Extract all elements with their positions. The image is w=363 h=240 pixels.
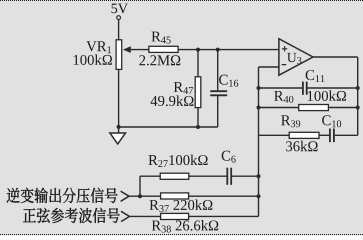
value 100k ohm (VR1) xyxy=(74,54,112,65)
label VR1 xyxy=(86,41,111,53)
value 100k ohm (R40) xyxy=(308,90,346,101)
node 5V supply label xyxy=(112,4,128,14)
wire input row B xyxy=(129,195,259,197)
junction dot VR1/ground xyxy=(117,125,121,129)
wire op-amp inverting input xyxy=(259,66,279,68)
wire 5V to VR1 top xyxy=(118,20,120,40)
wire right feedback rail (output node) xyxy=(357,57,359,135)
junction dot R40 right xyxy=(356,106,360,110)
label R38 and value 26.6k ohm xyxy=(152,220,218,233)
label R45 xyxy=(152,32,171,44)
junction dot C11 right xyxy=(356,86,360,90)
value 2.2M ohm (R45) xyxy=(139,55,180,65)
resistor R37 body xyxy=(161,193,189,199)
value 49.9k ohm (R47) xyxy=(151,95,194,106)
label C10 xyxy=(322,115,341,127)
junction dot C11 left xyxy=(257,86,261,90)
input arrow 1 xyxy=(121,191,129,201)
label C16 xyxy=(219,75,238,87)
ground symbol xyxy=(110,127,126,144)
wire R27 to C6 xyxy=(189,175,227,177)
label R39 xyxy=(281,115,300,127)
potentiometer VR1 body xyxy=(116,40,122,70)
label C11 xyxy=(306,70,325,82)
op-amp U3 xyxy=(279,39,313,75)
label R40 xyxy=(274,91,293,103)
label R27 and value 100k ohm xyxy=(148,155,207,167)
resistor R38 body xyxy=(161,213,189,219)
5V terminal circle xyxy=(117,16,121,20)
junction dot input branch xyxy=(138,194,142,198)
capacitor C6 xyxy=(227,168,258,185)
junction dot R40 left xyxy=(257,106,261,110)
label R37 and value 220k ohm xyxy=(150,199,213,212)
capacitor C10 xyxy=(330,129,358,143)
label input: inverter output divider signal xyxy=(7,188,118,203)
junction dot R47 bottom xyxy=(196,125,200,129)
resistor R47 (vertical) xyxy=(195,50,201,127)
junction dot R47 top xyxy=(196,48,200,52)
label C6 xyxy=(222,151,236,163)
resistor R45 body xyxy=(149,46,178,52)
VR1 wiper arrow xyxy=(123,46,149,53)
wire op-amp output xyxy=(313,56,358,58)
input arrow 2 xyxy=(121,211,130,221)
wire ground rail xyxy=(119,126,218,128)
junction dot row B right xyxy=(257,194,261,198)
resistor R40 xyxy=(259,105,358,111)
capacitor C11 xyxy=(259,82,358,95)
junction dot row A right xyxy=(257,174,261,178)
wire VR1 bottom to ground rail xyxy=(118,69,120,127)
wire branch up to row A xyxy=(139,176,141,196)
wire input row C xyxy=(130,215,259,217)
label R47 xyxy=(174,82,193,94)
wire R45 to op-amp + input xyxy=(178,49,279,51)
value 36k ohm (R39) xyxy=(286,141,318,152)
wire row A left xyxy=(140,175,160,177)
wire left feedback rail (inverting node) xyxy=(258,67,260,216)
label input: sine reference signal xyxy=(23,208,120,223)
junction dot C16 top xyxy=(216,48,220,52)
resistor R39 xyxy=(259,132,330,138)
resistor R27 body xyxy=(160,173,189,179)
capacitor C16 (vertical) xyxy=(210,50,227,127)
